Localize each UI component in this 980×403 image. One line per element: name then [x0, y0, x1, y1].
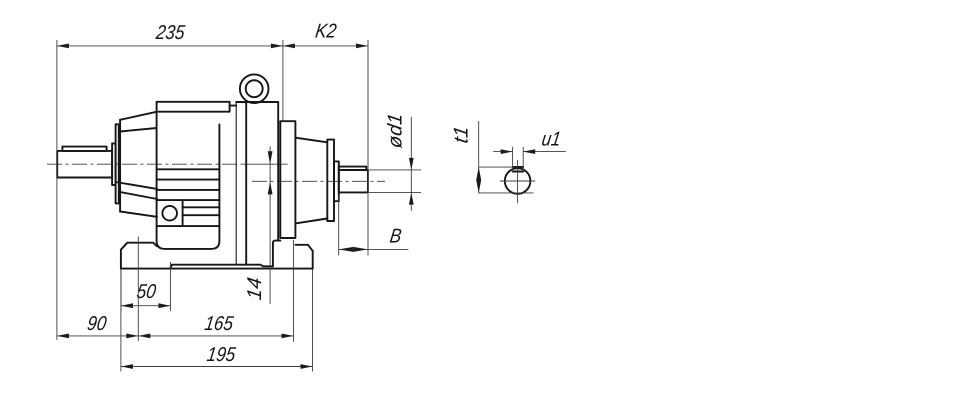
eye bolt outer — [240, 74, 269, 103]
fin line 5 right of plug block — [183, 206, 220, 208]
detail circle — [505, 168, 531, 194]
dim 235 arrow right — [271, 44, 283, 49]
dim 90 arrows — [57, 334, 69, 339]
svg-text:K2: K2 — [314, 19, 339, 41]
input axis center line — [47, 163, 242, 165]
base bottom line — [121, 268, 313, 270]
svg-text:50: 50 — [135, 280, 158, 302]
cap step to housing — [230, 105, 237, 107]
dim od1 ext bottom — [369, 192, 421, 194]
input shaft — [57, 151, 112, 178]
motor bell top inner slant — [120, 128, 157, 132]
flange plate — [280, 121, 295, 238]
svg-text:235: 235 — [154, 21, 187, 43]
dim 165 ext right — [293, 240, 295, 342]
dim 235 ext line left — [56, 40, 58, 340]
dim u1 line left — [493, 151, 512, 153]
dim 14 arrow up — [268, 181, 273, 194]
dim t1 arrows — [476, 167, 481, 180]
dim u1 line right — [523, 151, 566, 153]
motor fin line 1 — [157, 168, 220, 170]
seal cap — [334, 161, 339, 201]
dim t1 ext bottom — [479, 192, 534, 194]
svg-text:t1: t1 — [451, 125, 473, 145]
plug block right edge — [182, 200, 184, 226]
dim 235 arrow left — [57, 44, 69, 49]
motor bell bottom outer slant — [120, 212, 157, 217]
dim K2 arrow right — [356, 44, 368, 49]
motor fin line 4 — [157, 199, 220, 201]
dim K2 line — [283, 45, 368, 47]
dim 235 ext line right — [282, 40, 284, 121]
dim 50 line — [121, 305, 170, 307]
motor bell bottom slant A — [116, 182, 157, 189]
output shaft key — [339, 167, 367, 170]
dim t1 line — [478, 121, 480, 194]
dim B leader — [339, 248, 409, 250]
dim od1 arrow bottom — [409, 193, 414, 205]
dim 90 line — [57, 335, 138, 337]
dim 195 ext right — [312, 269, 314, 372]
dim B arrows — [339, 247, 354, 252]
cone bottom slant — [295, 219, 327, 224]
motor bell left face — [119, 120, 121, 212]
dim od1 ext top — [369, 169, 421, 171]
detail slot side lines — [513, 147, 524, 172]
base recess line — [170, 265, 273, 269]
dim od1 line — [410, 117, 412, 211]
dim 14 arrow down — [268, 151, 273, 164]
svg-text:165: 165 — [203, 312, 235, 334]
svg-text:ød1: ød1 — [385, 112, 407, 150]
housing inner wall — [245, 102, 247, 265]
input shaft key — [62, 147, 106, 151]
dim 14 line — [269, 146, 271, 304]
detail horizontal center line — [500, 180, 536, 182]
left foot — [121, 243, 157, 269]
housing front wall — [235, 102, 237, 265]
dim 195 arrows — [121, 364, 133, 369]
dim t1 ext top — [479, 166, 515, 168]
motor bell top outer slant — [120, 112, 157, 120]
drain plug circle — [162, 206, 177, 221]
fin line 6 right of plug block — [183, 214, 220, 216]
gearbox housing top — [236, 101, 278, 103]
dim 165 line — [138, 335, 293, 337]
output shaft — [339, 170, 368, 192]
motor bell bottom slant B — [120, 192, 157, 199]
dim 90-165 shared ext line — [137, 237, 139, 342]
dim 195 ext left — [120, 269, 122, 372]
cone top slant — [295, 138, 327, 143]
detail keyway slot — [513, 167, 524, 172]
right foot gusset ledge — [273, 241, 280, 267]
dim 195 line — [121, 366, 313, 368]
svg-text:90: 90 — [86, 312, 109, 334]
motor fin line 2 — [157, 179, 220, 181]
detail vertical center line — [517, 160, 519, 203]
dim od1 arrow top — [409, 158, 414, 170]
svg-text:195: 195 — [206, 343, 238, 365]
dim u1 arrows — [501, 149, 513, 154]
dim K2 ext line right — [367, 40, 369, 256]
eye bolt inner — [246, 80, 263, 97]
bearing cap — [116, 124, 119, 203]
shaft shoulder — [112, 144, 116, 186]
input axis extension line — [242, 163, 288, 165]
motor top cap — [157, 102, 230, 112]
plug block bottom — [157, 225, 220, 227]
dim B ext left — [338, 195, 340, 256]
dim 50 arrows — [121, 303, 133, 308]
right foot — [295, 245, 312, 269]
svg-text:14: 14 — [244, 276, 266, 301]
housing right wall — [277, 102, 279, 241]
hub plate — [327, 140, 334, 221]
dim 235 line — [57, 45, 283, 47]
motor body outline — [157, 112, 220, 249]
dim K2 arrow left — [283, 44, 295, 49]
dim 165 arrows — [138, 334, 150, 339]
dim 50 ext right — [169, 262, 171, 311]
svg-text:u1: u1 — [540, 127, 562, 149]
output axis center line — [252, 180, 385, 182]
motor fin line 3 — [157, 189, 220, 191]
dim 50 ext left — [120, 269, 122, 311]
